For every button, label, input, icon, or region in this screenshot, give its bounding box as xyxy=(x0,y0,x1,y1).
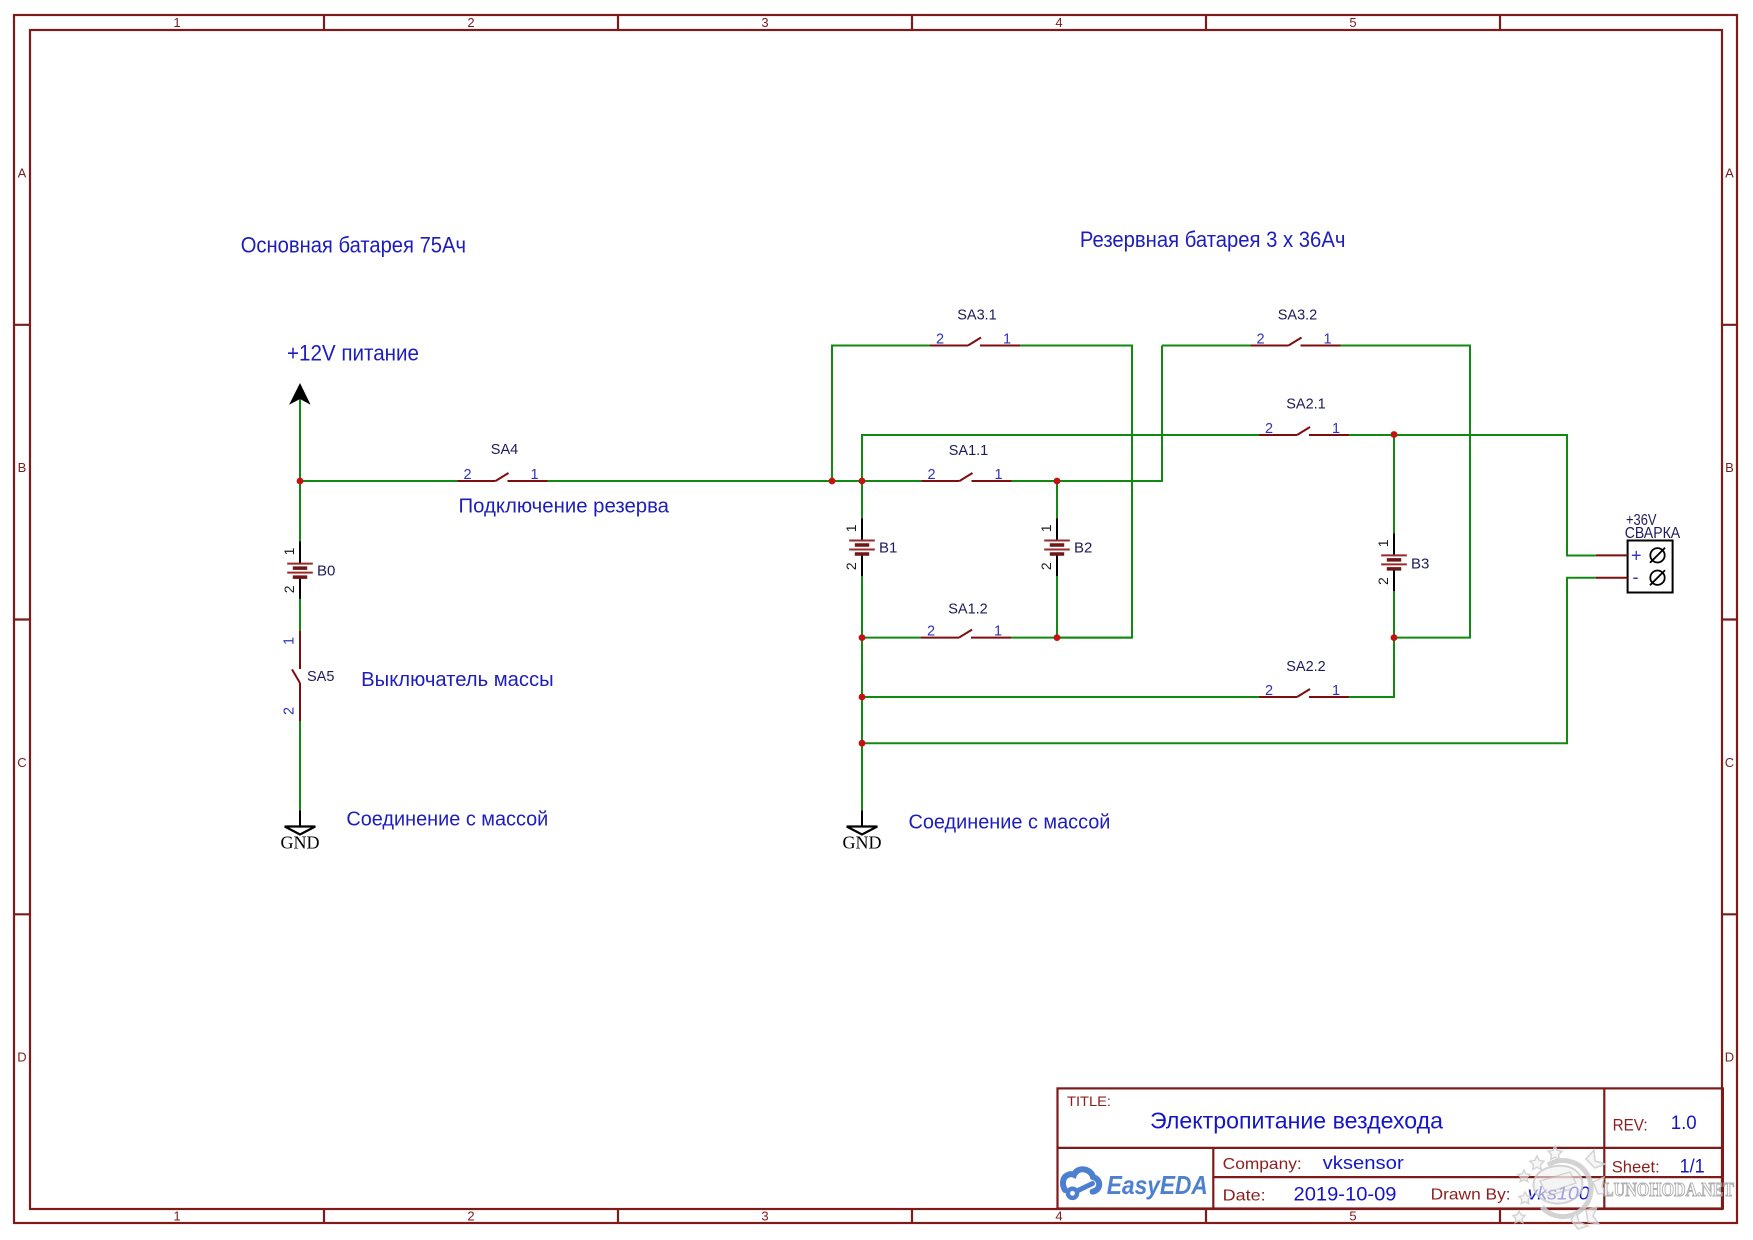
svg-text:SA1.2: SA1.2 xyxy=(948,602,988,618)
svg-text:1: 1 xyxy=(530,467,538,483)
svg-text:1: 1 xyxy=(994,467,1002,483)
svg-text:LUNOHODA.NET: LUNOHODA.NET xyxy=(1603,1180,1734,1201)
svg-text:1: 1 xyxy=(173,15,180,30)
svg-text:Sheet:: Sheet: xyxy=(1612,1157,1660,1176)
svg-text:B1: B1 xyxy=(879,540,897,557)
svg-text:1: 1 xyxy=(1323,332,1331,348)
svg-text:SA2.2: SA2.2 xyxy=(1286,659,1326,675)
svg-text:5: 5 xyxy=(1349,1209,1356,1224)
svg-text:1/1: 1/1 xyxy=(1680,1156,1705,1177)
svg-text:Электропитание вездехода: Электропитание вездехода xyxy=(1150,1108,1443,1134)
svg-text:1: 1 xyxy=(173,1209,180,1224)
svg-text:2: 2 xyxy=(936,332,944,348)
svg-text:A: A xyxy=(1725,165,1734,180)
svg-text:2: 2 xyxy=(1038,562,1054,570)
svg-text:C: C xyxy=(17,755,26,770)
svg-text:Drawn By:: Drawn By: xyxy=(1431,1187,1511,1204)
svg-text:1.0: 1.0 xyxy=(1671,1113,1697,1134)
svg-text:SA3.2: SA3.2 xyxy=(1278,308,1318,324)
svg-text:B: B xyxy=(18,460,27,475)
svg-text:SA2.1: SA2.1 xyxy=(1286,397,1326,413)
svg-text:1: 1 xyxy=(282,637,298,645)
svg-text:2: 2 xyxy=(843,562,859,570)
svg-text:2: 2 xyxy=(281,585,297,593)
svg-text:1: 1 xyxy=(1375,539,1391,547)
svg-text:2: 2 xyxy=(927,467,935,483)
svg-text:Company:: Company: xyxy=(1223,1156,1302,1173)
svg-text:B3: B3 xyxy=(1411,556,1429,573)
svg-text:GND: GND xyxy=(281,833,320,853)
svg-text:Выключатель массы: Выключатель массы xyxy=(361,669,554,691)
svg-text:4: 4 xyxy=(1055,1209,1062,1224)
svg-text:1: 1 xyxy=(1038,524,1054,532)
svg-text:1: 1 xyxy=(1332,683,1340,699)
svg-text:4: 4 xyxy=(1055,15,1062,30)
svg-text:SA4: SA4 xyxy=(491,442,518,458)
svg-text:SA5: SA5 xyxy=(307,669,334,685)
svg-text:1: 1 xyxy=(843,524,859,532)
svg-text:3: 3 xyxy=(761,15,768,30)
svg-text:1: 1 xyxy=(994,624,1002,640)
svg-text:СВАРКА: СВАРКА xyxy=(1625,525,1681,542)
svg-text:Основная батарея 75Ач: Основная батарея 75Ач xyxy=(241,233,466,258)
svg-text:2: 2 xyxy=(927,624,935,640)
svg-text:+: + xyxy=(1631,546,1642,566)
svg-text:TITLE:: TITLE: xyxy=(1067,1093,1111,1109)
svg-text:2: 2 xyxy=(1265,683,1273,699)
svg-text:D: D xyxy=(17,1050,26,1065)
svg-text:D: D xyxy=(1725,1050,1734,1065)
svg-text:SA1.1: SA1.1 xyxy=(949,443,989,459)
svg-text:A: A xyxy=(18,165,27,180)
svg-text:2: 2 xyxy=(463,467,471,483)
svg-text:1: 1 xyxy=(1332,421,1340,437)
svg-text:B2: B2 xyxy=(1074,540,1092,557)
svg-text:Соединение с массой: Соединение с массой xyxy=(909,812,1111,834)
svg-text:1: 1 xyxy=(1003,332,1011,348)
svg-text:2: 2 xyxy=(1265,421,1273,437)
svg-text:EasyEDA: EasyEDA xyxy=(1107,1170,1208,1200)
svg-text:Date:: Date: xyxy=(1223,1187,1266,1204)
svg-text:2: 2 xyxy=(1375,577,1391,585)
svg-text:2019-10-09: 2019-10-09 xyxy=(1294,1184,1397,1205)
svg-text:GND: GND xyxy=(843,833,882,853)
svg-text:B: B xyxy=(1725,460,1734,475)
svg-text:-: - xyxy=(1633,567,1639,587)
svg-text:Подключение резерва: Подключение резерва xyxy=(459,495,670,517)
svg-text:2: 2 xyxy=(1256,332,1264,348)
svg-text:1: 1 xyxy=(281,547,297,555)
svg-text:Резервная батарея 3 x 36Ач: Резервная батарея 3 x 36Ач xyxy=(1080,227,1346,252)
svg-text:5: 5 xyxy=(1349,15,1356,30)
svg-text:Соединение с массой: Соединение с массой xyxy=(346,809,548,831)
svg-text:2: 2 xyxy=(467,1209,474,1224)
svg-text:2: 2 xyxy=(467,15,474,30)
svg-text:C: C xyxy=(1725,755,1734,770)
svg-text:vksensor: vksensor xyxy=(1323,1153,1404,1173)
svg-text:+12V питание: +12V питание xyxy=(287,340,419,365)
svg-text:SA3.1: SA3.1 xyxy=(957,308,997,324)
svg-text:3: 3 xyxy=(761,1209,768,1224)
svg-text:REV:: REV: xyxy=(1613,1115,1648,1134)
svg-text:B0: B0 xyxy=(317,563,335,580)
svg-text:2: 2 xyxy=(282,707,298,715)
